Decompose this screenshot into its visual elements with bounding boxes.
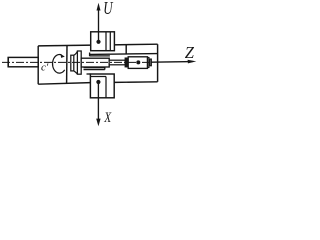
- coupling bar 2: [127, 58, 128, 67]
- coupling bar 1: [125, 58, 126, 67]
- axis Z arrow line: [151, 61, 192, 64]
- wire top-right chamber left edge: [125, 44, 127, 54]
- rotor rim: [77, 51, 81, 74]
- damper end bracket: [150, 59, 152, 66]
- wire inner partition: [66, 46, 68, 83]
- wire housing bottom-left edge: [38, 83, 90, 85]
- svg-text:U: U: [103, 0, 113, 18]
- axis U arrowhead: [97, 3, 101, 11]
- wire housing left edge: [37, 46, 39, 84]
- sensor bottom: outer box: [90, 74, 114, 98]
- axis X arrow line: [97, 82, 99, 119]
- axis X arrowhead: [96, 119, 100, 127]
- sensor top: pivot dot: [96, 40, 100, 44]
- sensor top: bar left cap: [89, 53, 91, 57]
- rotor cylinder: [81, 58, 109, 67]
- sensor top: bar bottom line: [90, 55, 110, 57]
- input shaft: [8, 57, 38, 66]
- sensor bottom: top line left extension: [87, 73, 91, 75]
- damper body: [128, 57, 147, 69]
- rotation arrowhead: [61, 54, 65, 58]
- damper end bar: [148, 58, 149, 68]
- sensor bottom: inner vertical: [105, 77, 107, 98]
- sensor bottom: bar top line: [84, 67, 105, 69]
- axis Z arrowhead: [188, 60, 197, 64]
- svg-text:X: X: [103, 108, 112, 125]
- sensor bottom: bar right cap: [104, 67, 106, 70]
- sensor bottom: inner horizontal: [90, 76, 106, 78]
- svg-text:c′: c′: [41, 61, 49, 73]
- sensor bottom: bar bottom line: [84, 69, 105, 71]
- rotor axle right: [109, 60, 125, 65]
- axis Z centerline dash-dot: [2, 61, 152, 63]
- svg-text:Z: Z: [185, 43, 195, 62]
- sensor bottom: pivot dot: [96, 80, 100, 84]
- damper piston dot: [136, 60, 140, 64]
- sensor top: outer box: [91, 32, 115, 51]
- axis U arrow line: [98, 10, 100, 42]
- wire housing right edge: [157, 44, 159, 82]
- sensor top: inner wall 2: [109, 32, 111, 51]
- wire housing bottom-right edge: [114, 81, 157, 84]
- sensor top: inner wall 1: [105, 32, 107, 51]
- wire housing top edge: [38, 44, 157, 46]
- rotor bell flare: [74, 51, 78, 74]
- rotation arrow arc: [53, 55, 65, 74]
- input shaft end cap: [7, 57, 9, 67]
- sensor top: long base line: [90, 53, 158, 56]
- rotor bell stem: [71, 55, 74, 71]
